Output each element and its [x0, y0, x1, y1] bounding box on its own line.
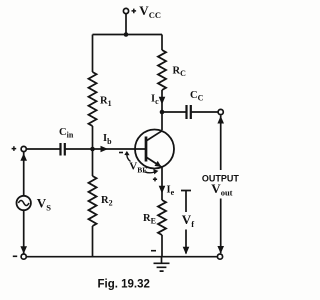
resistor Rc	[158, 50, 166, 90]
source Vs circle	[17, 196, 31, 210]
capacitor Cin	[61, 143, 65, 156]
wire: Vs down to bottom rail	[23, 210, 25, 253]
wire: R1 bottom lead	[92, 126, 94, 149]
wire: input terminal down to Vs	[23, 152, 25, 196]
terminal: output bottom open circle	[217, 254, 222, 259]
transistor Q1 base bar	[145, 137, 148, 162]
wire: collector to Cc	[162, 111, 186, 113]
wire: input terminal to Cin	[26, 148, 60, 150]
wire: top supply rail	[93, 34, 163, 36]
label: minus near base (Vbe)	[119, 152, 123, 154]
arrow: Vbe arc toward emitter	[145, 172, 155, 173]
svg-text:Cin: Cin	[59, 127, 74, 140]
arrow: Ib current arrow	[101, 146, 109, 152]
svg-text:Ic: Ic	[151, 94, 159, 107]
wire: output vertical upper segment	[220, 116, 222, 171]
arrow: Vf down arrowhead	[183, 247, 190, 255]
resistor R1	[89, 72, 97, 126]
terminal: input top open circle	[21, 146, 26, 151]
ground symbol	[154, 257, 170, 271]
terminal: bottom-left open circle	[21, 254, 26, 259]
circuit schematic: common-emitter amplifier Fig. 19.32	[0, 0, 250, 300]
dimension Vf: top T-bar and upper segment	[181, 191, 191, 213]
arrow: down arrow above bottom-left terminal	[20, 246, 27, 254]
svg-text:VS: VS	[37, 195, 51, 212]
wire: Re bottom lead	[161, 235, 163, 257]
node: collector junction dot	[160, 110, 165, 115]
source Vs sine wave	[18, 201, 29, 206]
arrow: Vbe arc toward base	[127, 154, 131, 162]
capacitor Cc	[187, 105, 191, 119]
wire: R2 bottom lead	[92, 226, 94, 257]
resistor Re	[158, 200, 166, 235]
svg-text:R2: R2	[101, 195, 113, 208]
svg-text:Fig. 19.32: Fig. 19.32	[98, 278, 150, 290]
svg-text:RC: RC	[173, 66, 187, 79]
transistor Q1 collector stroke	[146, 131, 162, 141]
arrow: Ic current arrow	[159, 97, 166, 105]
transistor Q1 emitter arrowhead	[155, 161, 162, 167]
transistor Q1 envelope	[135, 130, 174, 169]
wire: Cc to output terminal	[191, 111, 218, 113]
wire: Rc top lead	[161, 35, 163, 51]
label: minus at bottom-left	[13, 255, 17, 257]
terminal: output top open circle	[218, 109, 223, 114]
node: Vcc junction dot	[124, 32, 129, 37]
wire: Cin to base	[65, 148, 146, 150]
wire: R1 top lead	[92, 35, 94, 73]
arrow: Ie current arrow	[159, 186, 166, 194]
wire: R2 top lead	[92, 149, 94, 176]
label: plus at input terminal	[12, 146, 17, 151]
wire: output vertical lower segment	[220, 199, 222, 254]
terminal: +Vcc open circle	[123, 8, 128, 13]
svg-text:Ie: Ie	[167, 185, 175, 198]
arrow: output up arrowhead	[217, 116, 224, 124]
svg-text:RE: RE	[143, 213, 156, 226]
arrow: up arrow below input terminal	[20, 153, 27, 161]
svg-text:VCC: VCC	[139, 3, 161, 20]
svg-text:R1: R1	[100, 95, 112, 108]
label: plus of Vcc	[132, 9, 137, 14]
wire: Vcc stub	[125, 14, 127, 35]
svg-text:Vf: Vf	[182, 212, 194, 229]
dimension Vf: lower segment	[185, 230, 187, 254]
svg-text:CC: CC	[190, 90, 204, 103]
wire: bottom ground rail	[25, 256, 218, 258]
wire: Rc bottom lead	[161, 90, 163, 130]
label: minus above ground rail	[151, 250, 156, 252]
resistor R2	[89, 176, 97, 226]
transistor Q1 emitter stroke	[146, 157, 162, 167]
label: plus near emitter (Vbe)	[153, 177, 157, 181]
svg-text:Ib: Ib	[103, 133, 112, 146]
node: base junction dot	[90, 147, 95, 152]
arrow: output down arrowhead	[217, 246, 224, 254]
wire: emitter down lead	[161, 167, 163, 200]
